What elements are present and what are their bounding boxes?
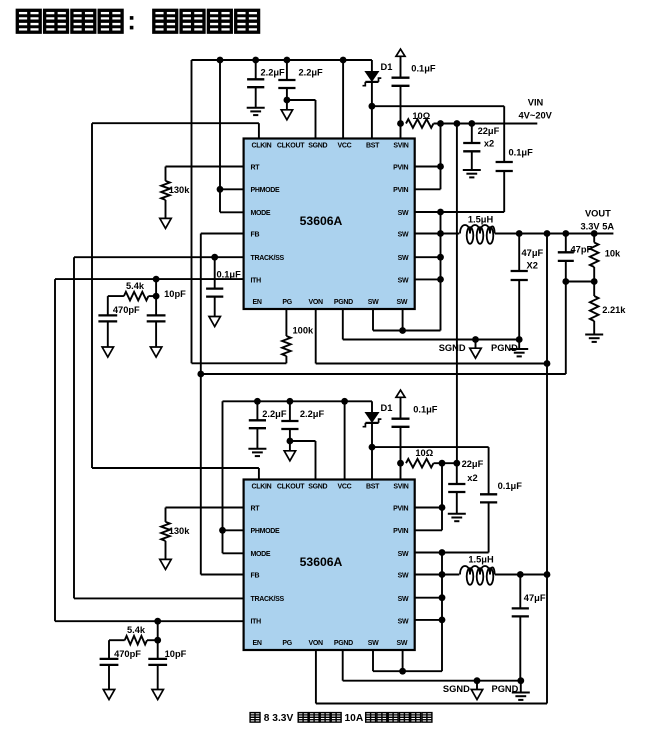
svg-text:FB: FB bbox=[251, 231, 260, 238]
svg-text:8 3.3V: 8 3.3V bbox=[264, 713, 294, 724]
svg-text:EN: EN bbox=[253, 640, 262, 647]
svg-text:470pF: 470pF bbox=[113, 305, 140, 315]
svg-text:5.4k: 5.4k bbox=[126, 281, 145, 291]
svg-text:PVIN: PVIN bbox=[393, 528, 408, 535]
svg-text:PHMODE: PHMODE bbox=[251, 528, 281, 535]
svg-text:BST: BST bbox=[366, 142, 380, 149]
svg-text:0.1μF: 0.1μF bbox=[217, 270, 242, 280]
svg-text:2.2μF: 2.2μF bbox=[262, 409, 287, 419]
svg-text:PG: PG bbox=[282, 640, 292, 647]
svg-text:D1: D1 bbox=[381, 62, 393, 72]
svg-text:ITH: ITH bbox=[251, 618, 262, 625]
svg-text:SW: SW bbox=[398, 210, 409, 217]
svg-text:PVIN: PVIN bbox=[393, 505, 408, 512]
svg-text:4V~20V: 4V~20V bbox=[519, 111, 553, 121]
svg-text:MODE: MODE bbox=[251, 551, 271, 558]
svg-text:ITH: ITH bbox=[251, 277, 262, 284]
svg-text:SGND: SGND bbox=[308, 142, 327, 149]
svg-text:CLKIN: CLKIN bbox=[252, 142, 272, 149]
svg-text:VON: VON bbox=[308, 640, 323, 647]
svg-text:SGND: SGND bbox=[308, 483, 327, 490]
svg-text:2.2μF: 2.2μF bbox=[260, 68, 285, 78]
svg-text:22μF: 22μF bbox=[478, 126, 500, 136]
svg-text:FB: FB bbox=[251, 572, 260, 579]
svg-text:470pF: 470pF bbox=[114, 649, 141, 659]
svg-text:SW: SW bbox=[368, 299, 379, 306]
svg-text:SW: SW bbox=[398, 572, 409, 579]
svg-text:10Ω: 10Ω bbox=[412, 111, 430, 121]
svg-text:100k: 100k bbox=[293, 326, 315, 336]
svg-text:53606A: 53606A bbox=[300, 214, 343, 228]
svg-text:PGND: PGND bbox=[334, 640, 353, 647]
svg-text:x2: x2 bbox=[484, 138, 494, 148]
svg-text:SW: SW bbox=[398, 596, 409, 603]
svg-text:BST: BST bbox=[366, 483, 380, 490]
svg-text:SW: SW bbox=[398, 551, 409, 558]
svg-text:SW: SW bbox=[398, 255, 409, 262]
svg-text:2.2μF: 2.2μF bbox=[298, 68, 323, 78]
svg-text:PHMODE: PHMODE bbox=[251, 187, 281, 194]
svg-text:SW: SW bbox=[397, 640, 408, 647]
svg-text:47μF: 47μF bbox=[522, 248, 544, 258]
svg-text:SGND: SGND bbox=[439, 343, 466, 353]
svg-text:SVIN: SVIN bbox=[393, 483, 408, 490]
svg-text:2.2μF: 2.2μF bbox=[300, 409, 325, 419]
svg-text:D1: D1 bbox=[381, 403, 393, 413]
svg-text:CLKOUT: CLKOUT bbox=[277, 142, 305, 149]
svg-text:VON: VON bbox=[308, 299, 323, 306]
svg-text:SW: SW bbox=[368, 640, 379, 647]
svg-text:SW: SW bbox=[398, 618, 409, 625]
svg-text:1.5μH: 1.5μH bbox=[468, 214, 494, 224]
svg-text:SGND: SGND bbox=[443, 684, 470, 694]
svg-text:TRACK/SS: TRACK/SS bbox=[251, 596, 285, 603]
svg-text:10pF: 10pF bbox=[165, 649, 187, 659]
svg-text:SW: SW bbox=[398, 231, 409, 238]
svg-text:PGND: PGND bbox=[491, 343, 518, 353]
svg-text:x2: x2 bbox=[467, 473, 477, 483]
svg-text:TRACK/SS: TRACK/SS bbox=[251, 255, 285, 262]
svg-text:1.5μH: 1.5μH bbox=[468, 555, 494, 565]
svg-text:3.3V 5A: 3.3V 5A bbox=[581, 222, 615, 232]
svg-text:47μF: 47μF bbox=[524, 593, 546, 603]
svg-text:X2: X2 bbox=[527, 261, 538, 271]
svg-text:RT: RT bbox=[251, 164, 261, 171]
svg-text:0.1μF: 0.1μF bbox=[509, 148, 534, 158]
svg-text:0.1μF: 0.1μF bbox=[498, 481, 523, 491]
svg-text:VCC: VCC bbox=[337, 142, 351, 149]
svg-text:VOUT: VOUT bbox=[585, 209, 611, 219]
svg-text:2.21k: 2.21k bbox=[602, 305, 626, 315]
svg-text:0.1μF: 0.1μF bbox=[413, 405, 438, 415]
svg-text:RT: RT bbox=[251, 505, 261, 512]
svg-text:SVIN: SVIN bbox=[393, 142, 408, 149]
svg-text:22μF: 22μF bbox=[462, 459, 484, 469]
svg-text:EN: EN bbox=[253, 299, 262, 306]
svg-text:CLKIN: CLKIN bbox=[252, 483, 272, 490]
svg-text:CLKOUT: CLKOUT bbox=[277, 483, 305, 490]
svg-text:VCC: VCC bbox=[337, 483, 351, 490]
svg-text:10A: 10A bbox=[345, 713, 364, 724]
svg-text:5.4k: 5.4k bbox=[127, 625, 146, 635]
svg-text:PGND: PGND bbox=[492, 684, 519, 694]
svg-text:VIN: VIN bbox=[528, 97, 544, 107]
svg-text:PVIN: PVIN bbox=[393, 187, 408, 194]
svg-text:130k: 130k bbox=[169, 526, 191, 536]
svg-text:0.1μF: 0.1μF bbox=[411, 64, 436, 74]
svg-text:53606A: 53606A bbox=[300, 555, 343, 569]
svg-text:SW: SW bbox=[398, 277, 409, 284]
svg-text:130k: 130k bbox=[169, 185, 191, 195]
svg-text:MODE: MODE bbox=[251, 210, 271, 217]
svg-text:47pF: 47pF bbox=[571, 245, 593, 255]
svg-text:10k: 10k bbox=[605, 249, 621, 259]
svg-text:PG: PG bbox=[282, 299, 292, 306]
svg-text:SW: SW bbox=[397, 299, 408, 306]
svg-text:10pF: 10pF bbox=[164, 289, 186, 299]
svg-text:PGND: PGND bbox=[334, 299, 353, 306]
svg-text:10Ω: 10Ω bbox=[415, 448, 433, 458]
svg-text:PVIN: PVIN bbox=[393, 164, 408, 171]
